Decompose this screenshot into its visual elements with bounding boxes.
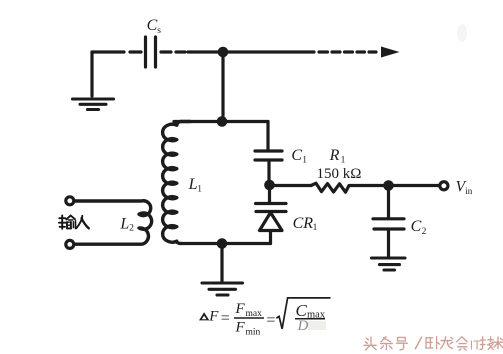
svg-text:1: 1 xyxy=(313,223,318,233)
svg-text:s: s xyxy=(157,26,161,36)
svg-text:C: C xyxy=(147,17,158,34)
svg-text:min: min xyxy=(246,328,261,338)
svg-text:D: D xyxy=(297,318,309,334)
svg-text:F: F xyxy=(208,308,219,324)
svg-text:L: L xyxy=(119,215,129,232)
svg-text:=: = xyxy=(266,312,275,329)
svg-text:1: 1 xyxy=(197,184,202,194)
svg-text:R: R xyxy=(329,147,340,164)
svg-text:1: 1 xyxy=(302,156,307,166)
svg-text:L: L xyxy=(188,176,198,193)
svg-text:C: C xyxy=(291,147,302,164)
svg-text:IT: IT xyxy=(470,339,481,353)
svg-text:2: 2 xyxy=(422,227,427,237)
svg-text:in: in xyxy=(465,186,473,196)
svg-text:1: 1 xyxy=(341,156,346,166)
svg-text:=: = xyxy=(221,310,230,327)
svg-text:F: F xyxy=(235,320,246,336)
svg-text:150 kΩ: 150 kΩ xyxy=(317,166,362,182)
svg-text:CR: CR xyxy=(293,215,314,232)
svg-text:2: 2 xyxy=(129,224,134,234)
svg-text:C: C xyxy=(411,218,422,235)
svg-text:F: F xyxy=(235,301,246,317)
